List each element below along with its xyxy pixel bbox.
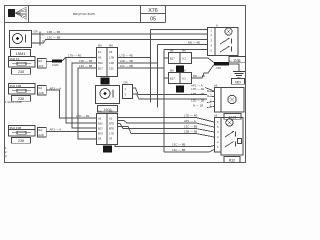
svg-text:13D: 13D [109, 61, 114, 65]
resistor pack body [221, 88, 244, 113]
svg-text:N — 1B: N — 1B [193, 104, 203, 108]
wire R2 pin2 to rheostat [118, 121, 215, 128]
header icon cell divider [28, 6, 30, 23]
wire M2 pin1 to resistor pack [133, 88, 208, 95]
fuse F4 pin bracket NA/A2D [38, 128, 47, 138]
svg-text:13C — 8B: 13C — 8B [120, 64, 133, 68]
connector R1 (middle upper) [97, 48, 118, 77]
svg-text:AP1 — A: AP1 — A [184, 119, 196, 123]
svg-text:L7D: L7D [109, 132, 114, 136]
svg-text:A5: A5 [98, 56, 102, 60]
svg-text:B10: B10 [98, 61, 103, 65]
block A right wire to splice CIM [192, 58, 215, 63]
vertical bus V7 to connector R2 [78, 68, 97, 139]
svg-text:13D — 3B: 13D — 3B [79, 59, 92, 63]
wire R1 pin to bus VC [118, 67, 165, 69]
wire AP1-A fuse F4 to connector R2 [46, 131, 96, 133]
svg-text:L7D — 4E: L7D — 4E [191, 87, 204, 91]
svg-text:MD: MD [235, 80, 241, 84]
border frame [5, 6, 246, 163]
splice CIM black bar [214, 62, 229, 66]
vertical bus VC [163, 50, 165, 153]
fuse F4 symbol [12, 131, 31, 134]
svg-text:A: A [216, 23, 218, 27]
fuse F2 pin bracket NA/A13 [38, 59, 47, 69]
svg-text:13D — 3B: 13D — 3B [120, 59, 133, 63]
svg-text:13C — 8B: 13C — 8B [172, 148, 185, 152]
svg-text:B17: B17 [170, 57, 175, 61]
vertical bus VB [157, 45, 159, 108]
wire R2 pin1 to rheostat [118, 118, 215, 123]
svg-text:B17: B17 [98, 127, 103, 131]
motor M1 bracket GR [32, 32, 41, 46]
block B left stub [164, 77, 169, 79]
svg-text:1 SAUF CLIM: 1 SAUF CLIM [5, 100, 22, 104]
rheostat contact 2 [225, 139, 242, 148]
vertical bus V5 splice to connector R2 [66, 58, 97, 124]
svg-text:13D — 3B: 13D — 3B [191, 99, 204, 103]
svg-text:3M4 F2B: 3M4 F2B [10, 84, 22, 88]
switch contact 2 [220, 46, 232, 52]
svg-text:AP1 — A: AP1 — A [50, 128, 62, 132]
svg-text:13C — 8B: 13C — 8B [172, 143, 185, 147]
svg-text:A5: A5 [109, 50, 113, 54]
title block X76 [141, 6, 166, 23]
svg-text:AP3 — A: AP3 — A [50, 87, 62, 91]
svg-text:A2: A2 [109, 117, 113, 121]
fuse F4 value box [12, 138, 31, 144]
svg-text:B70: B70 [98, 132, 103, 136]
svg-text:M6 — 4E: M6 — 4E [193, 74, 205, 78]
svg-text:13B — 3B: 13B — 3B [47, 30, 60, 34]
svg-text:BRQ/CSC 8C05: BRQ/CSC 8C05 [73, 12, 95, 16]
svg-text:B7D: B7D [109, 122, 114, 126]
svg-text:A5: A5 [98, 117, 102, 121]
ground symbol [233, 72, 245, 78]
svg-text:A 2: A 2 [182, 57, 186, 61]
svg-text:A6: A6 [214, 83, 218, 87]
harness connector icon [8, 7, 27, 19]
block B right wire to splice CIM [192, 65, 215, 79]
fuse F4 box [9, 126, 36, 137]
connector R2 (lower middle) [97, 114, 118, 145]
svg-text:L7N — 4E: L7N — 4E [68, 54, 81, 58]
connector R1 code square [101, 78, 110, 85]
svg-text:A3: A3 [109, 137, 113, 141]
svg-text:CIM: CIM [216, 66, 221, 70]
wire M2 pin3 to resistor pack [133, 94, 208, 99]
svg-text:X76: X76 [148, 8, 158, 14]
wire R2 pin4 to rheostat [118, 127, 215, 138]
fuse F2 value box [12, 69, 31, 75]
fuse F3 pin bracket NA/A2D [38, 86, 47, 96]
svg-text:M6: M6 [182, 68, 186, 72]
svg-text:M6: M6 [98, 43, 102, 47]
resistor pack fan-in [205, 88, 214, 108]
svg-text:238: 238 [18, 139, 24, 143]
svg-text:M6: M6 [182, 48, 186, 52]
wire L7N-4E splice to connector R1 [62, 58, 97, 62]
wire fuse F2 to splice [46, 61, 52, 63]
svg-text:GR: GR [124, 80, 128, 84]
svg-text:NA: NA [38, 59, 42, 63]
wire VB top to switch pin M6-4E [158, 44, 208, 46]
svg-text:M6: M6 [98, 109, 102, 113]
svg-text:B7E: B7E [109, 127, 114, 131]
splice CLIM black bar [52, 60, 62, 63]
svg-text:A2D: A2D [38, 91, 43, 95]
inline connector block B [169, 73, 192, 84]
svg-text:M6: M6 [170, 48, 174, 52]
wire R1 pin to bus VB [118, 62, 158, 64]
svg-text:13C — 8B: 13C — 8B [184, 125, 197, 129]
vertical bus V6 to connector R2 [72, 63, 97, 128]
svg-text:B17: B17 [98, 67, 103, 71]
motor M2 label box [98, 106, 118, 113]
svg-text:13C — 8B: 13C — 8B [47, 36, 60, 40]
block A left stub [164, 57, 169, 59]
svg-text:1A: 1A [98, 50, 101, 54]
switch contact 1 [220, 38, 232, 44]
svg-text:15M1: 15M1 [15, 51, 26, 56]
wire R1 pin to bus VA [118, 57, 151, 59]
svg-text:L7B: L7B [109, 56, 114, 60]
wire R2 pin3 to rheostat [118, 124, 215, 133]
wire VA top to switch pin [151, 29, 208, 31]
svg-text:NA: NA [38, 86, 42, 90]
connector R2 code square [103, 146, 112, 153]
svg-text:3M4 F3: 3M4 F3 [10, 57, 20, 61]
svg-text:A13: A13 [38, 64, 43, 68]
svg-text:13C: 13C [109, 67, 114, 71]
motor M1 (top-left blower motor) [10, 31, 32, 48]
control switch label box [229, 57, 246, 63]
fuse F2 box [9, 57, 36, 68]
wire VC bottom diag to rheostat [209, 150, 214, 153]
svg-text:B10: B10 [98, 122, 103, 126]
header band bottom line [5, 22, 166, 24]
svg-text:238: 238 [18, 70, 24, 74]
wire AP1-A fuse F3 to resistor pack [46, 90, 96, 118]
svg-text:M6 — 4E: M6 — 4E [188, 41, 200, 45]
svg-text:B17: B17 [170, 77, 175, 81]
fuse F2 symbol [12, 62, 31, 65]
wire N-1B splice to ground [229, 64, 239, 71]
fuse F3 value box [12, 96, 31, 102]
inline connector block A [169, 53, 192, 64]
wire R2 bottom drop to rheostat [115, 145, 214, 147]
fuse F3 box [9, 84, 36, 95]
motor M1 label box [11, 50, 31, 57]
svg-text:R32: R32 [229, 158, 236, 162]
svg-text:N — 1B: N — 1B [230, 60, 240, 64]
lamp symbol [226, 119, 233, 126]
motor M2 bracket GR [123, 85, 133, 99]
resistor pack pin strip [215, 88, 222, 113]
svg-text:13B — 3B: 13B — 3B [184, 130, 197, 134]
rheostat / fan switch unit (bottom right) [215, 118, 244, 156]
ground label box MD [232, 79, 245, 85]
wire VC top to switch pin [164, 49, 207, 51]
lamp symbol [225, 28, 232, 35]
svg-text:13C — 8B: 13C — 8B [79, 64, 92, 68]
svg-text:3M4 F3B: 3M4 F3B [10, 126, 22, 130]
svg-text:M6: M6 [109, 109, 113, 113]
block B code square [176, 86, 184, 93]
svg-text:NA: NA [38, 128, 42, 132]
svg-text:L7D — 4E: L7D — 4E [120, 54, 133, 58]
svg-text:A2D: A2D [38, 133, 43, 137]
svg-text:L7D — 4E: L7D — 4E [184, 114, 197, 118]
block A code square [176, 66, 184, 73]
svg-text:05: 05 [150, 17, 156, 23]
vertical bus VA [150, 30, 152, 103]
svg-text:13B — 3B: 13B — 3B [191, 92, 204, 96]
svg-text:A6: A6 [214, 113, 218, 117]
wire VC bottom to rheostat [164, 151, 209, 153]
rheostat label box [224, 157, 240, 163]
svg-text:5A: 5A [98, 137, 101, 141]
svg-text:M6: M6 [170, 68, 174, 72]
resistor pack label box [224, 114, 241, 120]
wire 13B-3B motor M1 pin1 to control switch [40, 33, 207, 35]
svg-text:CLIM: CLIM [52, 63, 59, 67]
rheostat contact 1 [225, 131, 236, 137]
control switch unit (top right) [208, 28, 239, 56]
motor M2 (middle) [96, 86, 120, 104]
fuse F3 symbol [12, 89, 31, 92]
svg-text:GR: GR [34, 30, 38, 34]
svg-text:M6: M6 [109, 43, 113, 47]
svg-text:A 2: A 2 [182, 77, 186, 81]
wire 13C-8B motor M1 pin3 to control switch [40, 40, 207, 44]
